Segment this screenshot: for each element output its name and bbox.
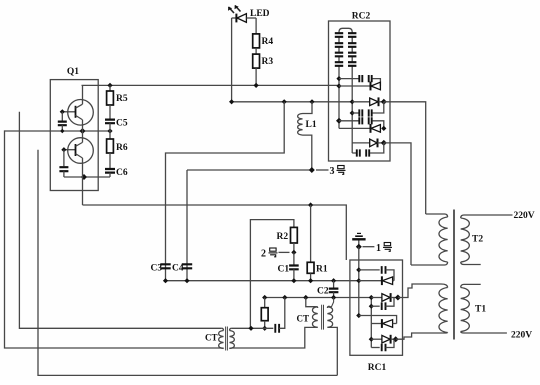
junction top rail R5 — [107, 83, 112, 88]
resistor R2 — [291, 227, 298, 243]
wire node A down — [166, 102, 285, 281]
svg-text:C4: C4 — [172, 264, 184, 274]
label R1 — [316, 265, 328, 275]
wire R2 top path — [250, 220, 294, 329]
wire bottom rail seg — [232, 327, 274, 329]
diode RC1 D4 — [371, 335, 395, 344]
transformer T1 primary — [439, 284, 448, 333]
transformer CT2 right winding — [327, 306, 332, 327]
capacitor row RC2 r8 — [352, 143, 384, 157]
label 220V top — [514, 211, 535, 221]
wire R5-C5 — [109, 105, 111, 119]
wire LED anode down — [255, 18, 257, 34]
capacitor base Q1a — [58, 112, 67, 131]
label R4 — [262, 37, 274, 47]
inductor L1 — [298, 102, 312, 170]
junction C3 rail — [163, 278, 168, 283]
svg-text:LED: LED — [250, 9, 270, 19]
wire emitter rail y=177 — [64, 176, 110, 178]
label CT2 — [297, 314, 310, 324]
svg-text:220V: 220V — [511, 331, 532, 341]
label 1hao — [376, 243, 392, 255]
capacitor row RC2 r1 — [339, 75, 380, 86]
wire 1hao dash — [363, 246, 375, 248]
svg-text:R4: R4 — [262, 37, 274, 47]
junction C1 rail — [291, 278, 296, 283]
wire Q1b emitter down — [82, 158, 84, 177]
transformer T1 secondary — [461, 284, 507, 333]
wire CT2 sec top — [327, 298, 333, 307]
junction C2 top — [331, 278, 336, 283]
svg-text:R1: R1 — [316, 265, 328, 275]
wire R3 down — [255, 68, 257, 85]
wire R6-C6 — [109, 153, 111, 168]
wire RC2 right leg lower — [351, 79, 353, 153]
svg-text:2: 2 — [261, 249, 266, 260]
transformer CT2 left winding — [312, 307, 317, 328]
wire RC1 out2 to T1 bottom — [396, 333, 441, 339]
resistor R4 — [253, 34, 260, 48]
junction RC2 r1 — [336, 76, 341, 81]
svg-text:L1: L1 — [306, 120, 317, 130]
transformer CT1 right winding — [230, 328, 235, 348]
wire C1 down — [293, 269, 295, 280]
junction RC2 r6 out — [381, 126, 386, 131]
diode RC2 D3 — [339, 124, 380, 133]
diode RC2 D4 — [352, 139, 384, 148]
label T1 — [475, 305, 486, 315]
label RC1 — [368, 363, 387, 373]
junction Rm bottom — [262, 326, 267, 331]
junction RC1 r2 — [356, 278, 361, 283]
diode RC2 D1 — [339, 82, 380, 91]
svg-text:RC1: RC1 — [368, 363, 387, 373]
label L1 — [306, 120, 317, 130]
capacitor row RC1 r1 — [359, 266, 394, 281]
wire cap corner — [279, 298, 285, 329]
junction mid rail R5C5 — [107, 128, 112, 133]
capacitor C4 — [182, 264, 192, 268]
wire 3hao rail — [187, 169, 312, 171]
capacitor C1 — [289, 266, 299, 270]
svg-text:Q1: Q1 — [67, 67, 79, 77]
emitter electrode — [352, 233, 365, 239]
wire CT1 sec bottom — [232, 327, 316, 348]
label 220V bottom — [511, 331, 532, 341]
junction 2hao — [291, 250, 296, 255]
junction RC1 r7 out — [393, 336, 399, 342]
capacitor C5 — [105, 120, 115, 124]
transformer T2 secondary — [461, 215, 513, 265]
wire CT2 pri top — [306, 298, 316, 307]
resistor R1 — [307, 262, 314, 273]
wire CT2 sec bottom — [327, 327, 337, 375]
transistor Q1a — [62, 85, 93, 125]
wire second rail — [232, 101, 353, 103]
wire 1hao into RC1 — [358, 247, 360, 270]
junction RC2 r2 — [336, 83, 341, 88]
wire R5 top — [109, 85, 111, 91]
wire left loop C (base Q1b feedback) — [38, 150, 337, 376]
wire 2hao dash — [279, 251, 290, 253]
capacitor row RC2 r4 — [352, 102, 384, 117]
wire electrode to node — [358, 241, 360, 247]
label C6 — [116, 168, 128, 178]
resistor R5 — [107, 91, 114, 105]
svg-text:T1: T1 — [475, 305, 486, 315]
junction R1 rail — [308, 278, 313, 283]
wire emitter to long rail — [82, 177, 84, 205]
svg-text:C3: C3 — [151, 264, 163, 274]
svg-text:RC2: RC2 — [352, 12, 371, 22]
svg-text:C5: C5 — [116, 119, 128, 129]
svg-text:R5: R5 — [116, 94, 128, 104]
label R6 — [116, 143, 128, 153]
label CT1 — [205, 333, 218, 343]
wire RC1 out1 to T1 top — [398, 284, 441, 298]
capacitor chain RC2 — [335, 28, 357, 78]
label 3hao — [330, 166, 346, 178]
junction RC2 r3 — [350, 99, 355, 104]
svg-text:T2: T2 — [472, 235, 483, 245]
label RC2 — [352, 12, 371, 22]
Q1 block box — [50, 80, 98, 191]
label 2hao — [261, 248, 278, 260]
diode RC2 D2 — [352, 97, 384, 106]
capacitor base Q1b — [59, 150, 68, 177]
transformer CT2 core — [322, 305, 324, 330]
label R2 — [277, 232, 289, 242]
junction RC2 r3 out — [381, 99, 387, 105]
capacitor C2 — [329, 281, 339, 298]
wire R2 to node — [293, 243, 295, 252]
resistor Rm — [261, 298, 268, 329]
transistor Q1b — [64, 131, 93, 163]
wire left loop B (mid rail feedback) — [5, 130, 222, 348]
wire C6 down — [109, 173, 111, 177]
junction LED bottom — [229, 99, 234, 104]
junction RC2 r4 — [350, 110, 355, 115]
label R3 — [262, 57, 274, 67]
wire RC1 r5 — [359, 316, 397, 324]
junction base Q1b — [61, 147, 66, 152]
svg-text:3: 3 — [330, 166, 335, 177]
svg-text:C6: C6 — [116, 168, 128, 178]
label C4 — [172, 264, 184, 274]
diode RC1 D1 — [359, 276, 394, 285]
label C5 — [116, 119, 128, 129]
junction RC1 r3 left — [369, 295, 374, 300]
junction C4 rail — [184, 278, 189, 283]
transformer T2 primary — [411, 214, 448, 265]
junction C2 bottom — [331, 295, 336, 300]
junction 1hao — [356, 244, 362, 250]
svg-text:C2: C2 — [317, 287, 329, 297]
transformer core — [453, 210, 455, 340]
junction RC1 r4 — [369, 304, 374, 309]
transformer CT1 core — [226, 327, 228, 351]
wire rail y280 — [166, 280, 359, 282]
junction 3hao — [309, 167, 315, 173]
capacitor row RC1 r8 — [371, 339, 394, 351]
junction second rail L1 — [309, 99, 314, 104]
capacitor row RC1 r4 — [371, 298, 394, 311]
wire node to C1 — [293, 252, 295, 264]
wire RC1 v1 — [358, 270, 360, 316]
junction mid rail stack — [80, 128, 86, 134]
LED arrows — [228, 5, 241, 13]
svg-text:R2: R2 — [277, 232, 289, 242]
junction RC1 r5 — [356, 313, 361, 318]
resistor R6 — [107, 139, 114, 153]
junction res mid top — [262, 295, 267, 300]
junction mid rail cap — [60, 129, 64, 133]
wire LED cathode down — [231, 18, 233, 102]
wire RC2 out2 to T2 bottom — [384, 143, 411, 265]
RC2 block box — [329, 21, 391, 161]
junction base Q1a — [60, 109, 65, 114]
wire C4 drop — [186, 170, 188, 281]
capacitor row RC2 r5 — [339, 117, 384, 128]
junction R3 top rail — [254, 83, 259, 88]
junction R2path rail — [248, 326, 253, 331]
svg-text:C1: C1 — [278, 265, 290, 275]
wire RC2 left leg lower — [338, 79, 340, 129]
label C2 — [317, 287, 329, 297]
junction rail R1 — [308, 202, 313, 207]
label R5 — [116, 94, 128, 104]
junction emitter rail — [81, 174, 87, 180]
wire 3hao dash — [316, 169, 329, 171]
svg-text:R3: R3 — [262, 57, 274, 67]
wire R1 top — [310, 205, 312, 262]
wire RC1 v2 — [370, 298, 372, 347]
wire Q1a emitter to rail — [82, 120, 84, 131]
svg-text:R6: R6 — [116, 143, 128, 153]
wire top rail — [82, 84, 340, 86]
junction RC1 r1 — [356, 267, 361, 272]
resistor R3 — [253, 54, 260, 68]
svg-text:220V: 220V — [514, 211, 535, 221]
transformer CT1 left winding — [219, 328, 224, 348]
junction RC1 r3 out — [395, 295, 401, 301]
capacitor Cm — [275, 324, 279, 333]
diode RC1 D2 — [371, 293, 398, 302]
wire mid rail y=131 — [5, 130, 111, 132]
diode RC1 D3 — [371, 319, 396, 328]
RC1 block box — [350, 260, 403, 355]
capacitor C6 — [105, 169, 115, 173]
svg-text:1: 1 — [376, 243, 381, 254]
wire RC2 out1 to T2 top — [384, 102, 426, 214]
label C1 — [278, 265, 290, 275]
wire rail y297 — [265, 297, 372, 299]
wire R1 down — [310, 273, 312, 280]
wire R4-R3 — [255, 48, 257, 54]
label C3 — [151, 264, 163, 274]
wire C5 down — [109, 123, 111, 131]
label T2 — [472, 235, 483, 245]
junction RC2 r5 — [336, 118, 342, 124]
label LED — [250, 9, 270, 19]
svg-text:CT: CT — [205, 333, 218, 343]
LED D1 — [232, 14, 257, 23]
svg-text:CT: CT — [297, 314, 310, 324]
label Q1 — [67, 67, 79, 77]
junction cap corner top — [282, 295, 287, 300]
wire R6 top — [109, 131, 111, 139]
capacitor C3 — [160, 264, 170, 268]
junction CT2 tap — [303, 295, 308, 300]
junction second rail A — [282, 99, 287, 104]
wire left loop A (base Q1a feedback) — [19, 112, 221, 328]
junction RC2 r7 out — [381, 140, 387, 146]
junction RC1 r7 left — [369, 337, 374, 342]
wire long rail y205 — [83, 205, 347, 260]
